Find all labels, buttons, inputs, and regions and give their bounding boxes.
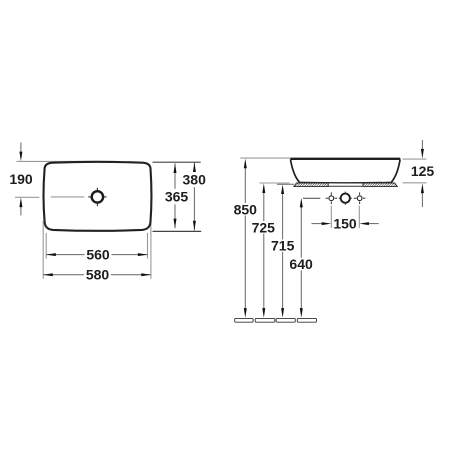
dimension 380 vertical line with arrows (193, 162, 196, 230)
extension line: 580 left (grey vertical) (42, 221, 44, 279)
extension line: 580 right (grey vertical) (150, 222, 152, 279)
extension line: rim top left (grey) (240, 157, 290, 159)
mounting pad left (hatched trapezoid) (294, 183, 328, 187)
extension line: tap hole level (dark) for 640 (303, 197, 320, 199)
label 380 (183, 172, 207, 188)
label 850 (234, 201, 258, 217)
floor tile 2 (255, 318, 275, 322)
drain centre line (grey, inside basin) (51, 196, 85, 198)
svg-text:365: 365 (165, 189, 189, 205)
label 190 (9, 171, 33, 187)
tap hole left (small) (326, 192, 338, 204)
svg-text:850: 850 (234, 201, 258, 217)
dimension 365 vertical line with arrows (174, 163, 177, 228)
svg-text:725: 725 (252, 219, 276, 235)
svg-text:190: 190 (9, 171, 33, 187)
svg-text:125: 125 (411, 163, 435, 179)
label 640 (289, 256, 313, 272)
svg-text:560: 560 (86, 247, 110, 263)
dimension 125: lower segment with up arrow (421, 184, 424, 208)
dimension 150: right arrow pointing left (359, 222, 379, 225)
dimension 580 line with outward arrows (43, 273, 151, 276)
floor tile 4 (297, 318, 316, 322)
dimension 150: extension lines from tap holes (331, 206, 359, 228)
extension line: top tangent (grey, left of basin) (17, 160, 98, 162)
floor tile 3 (276, 318, 295, 322)
label 580 (86, 267, 110, 283)
label 150 (333, 215, 357, 231)
floor tile 1 (235, 318, 253, 322)
extension line: drain centre level (left, grey) (15, 196, 39, 198)
label 125 (411, 163, 435, 179)
tap hole right (small) (354, 192, 366, 204)
mounting pad right (hatched trapezoid) (363, 183, 397, 187)
dimension 190: lower line with up arrow (19, 198, 22, 216)
drain ring (92, 191, 103, 202)
drain crosshair ticks (88, 188, 106, 206)
line between pads (counter edge) (328, 185, 363, 187)
svg-text:640: 640 (289, 256, 313, 272)
dimension 150: left arrow pointing right (312, 222, 332, 225)
svg-text:380: 380 (183, 172, 207, 188)
extension line: counter level (grey) for 725/715 (260, 182, 290, 184)
extension line: top right (dark) for 380/365 (153, 161, 201, 163)
extension line: 560 left (grey vertical) (45, 233, 47, 259)
basin outer outline (top view, barrel rounded rectangle) (44, 162, 152, 231)
label 725 (252, 219, 276, 235)
dimension 850 vertical line (244, 159, 247, 318)
extension line: pad underside (dark, for 715) (277, 183, 294, 185)
dimension 715 vertical line (281, 184, 284, 317)
bowl outline (front view) (290, 159, 400, 183)
svg-text:150: 150 (333, 215, 357, 231)
tap hole centre (large) (339, 192, 352, 205)
dimension 640 vertical line (300, 198, 303, 318)
label 560 (86, 247, 110, 263)
svg-text:715: 715 (271, 238, 295, 254)
dimension 125: upper segment with down arrow (421, 140, 424, 159)
dimension 725 vertical line (262, 183, 265, 317)
label 365 (165, 189, 189, 205)
dimension 560 line with outward arrows (46, 253, 147, 256)
label 715 (271, 238, 295, 254)
extension line: 560 right (grey vertical) (147, 233, 149, 259)
dimension 190: upper line with down arrow (19, 142, 22, 161)
extension line 125 top (grey) (403, 158, 427, 160)
svg-text:580: 580 (86, 267, 110, 283)
extension line 125 bottom (grey) (403, 182, 427, 184)
extension line: bottom right (dark) for 380/365 (153, 230, 202, 232)
